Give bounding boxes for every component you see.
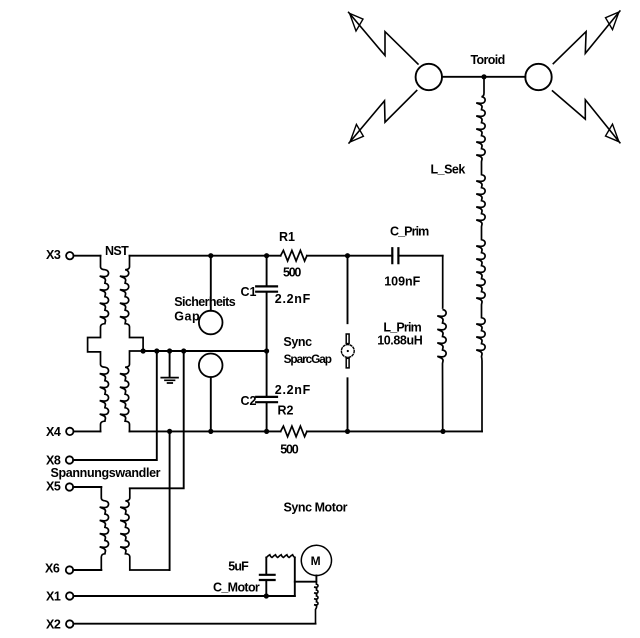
spark discharge bolt lower-right shaft [553, 91, 620, 143]
label Sicherheits [174, 295, 235, 309]
resistor R1 [281, 250, 307, 261]
label C1 [241, 285, 257, 299]
wire X6 lead [73, 569, 101, 571]
junction bottom rail / sync gap branch [345, 429, 350, 434]
wire sync gap lower lead [347, 378, 349, 431]
spark discharge bolt upper-right shaft [553, 11, 620, 64]
svg-text:2.2nF: 2.2nF [275, 383, 311, 397]
sync gap rotor [341, 345, 354, 358]
label X6 [45, 562, 60, 576]
wire X5 lead [73, 486, 101, 488]
label Gap [174, 309, 200, 323]
junction X1 wire / C_Motor [264, 593, 269, 598]
wire middle rail (centre tap to C1/C2) [143, 350, 267, 352]
wire middle rail to motor transformer [130, 351, 184, 488]
svg-text:NST: NST [105, 244, 129, 258]
transformer Spannungswandler primary winding (X5-X6) [100, 487, 109, 570]
junction middle rail / ground [167, 348, 172, 353]
svg-text:500: 500 [283, 265, 301, 279]
inductor motor auxiliary winding [266, 555, 295, 558]
capacitor C1 [256, 286, 277, 291]
wire C1 upper lead [266, 256, 268, 286]
spark discharge bolt upper-left shaft [349, 12, 418, 64]
wire C2 upper lead [266, 351, 268, 396]
svg-text:C2: C2 [241, 394, 257, 408]
wire C_Motor lower lead [265, 581, 267, 596]
label C2 value 2.2nF [275, 383, 311, 397]
label Sync Motor [284, 501, 348, 515]
transformer NST secondary winding (centre-tapped) [120, 256, 143, 432]
svg-text:X4: X4 [46, 425, 61, 439]
terminal X1 [66, 592, 73, 599]
wire X4 lead [74, 430, 101, 432]
label R2 value 500 [280, 443, 298, 457]
svg-text:109nF: 109nF [384, 274, 420, 288]
junction bottom rail / L_Prim [440, 429, 445, 434]
spark discharge bolt lower-right arrowhead [606, 124, 619, 142]
wire X8 to middle rail [73, 351, 157, 460]
svg-text:Sync: Sync [283, 335, 312, 349]
transformer Spannungswandler secondary winding [120, 488, 169, 570]
resistor R2 [281, 426, 307, 437]
label C_Prim [390, 224, 429, 238]
terminal X8 [66, 456, 73, 463]
wire Sicherheits gap lower lead [210, 377, 212, 431]
terminal X6 [66, 566, 73, 573]
svg-text:R2: R2 [278, 403, 294, 417]
inductor motor series winding [314, 582, 318, 624]
svg-text:5uF: 5uF [228, 560, 249, 574]
wire ground stub [169, 351, 171, 377]
label C_Prim value 109nF [384, 274, 420, 288]
wire toroid bar [442, 76, 525, 78]
svg-text:C_Prim: C_Prim [390, 224, 429, 238]
svg-text:X5: X5 [46, 479, 61, 493]
svg-text:R1: R1 [279, 230, 295, 244]
svg-text:C1: C1 [241, 285, 257, 299]
svg-text:2.2nF: 2.2nF [275, 292, 311, 306]
label X2 [46, 618, 61, 632]
wire Sicherheits gap upper lead [210, 256, 212, 311]
junction top rail / C1 [264, 253, 269, 258]
Sicherheits gap upper electrode [199, 311, 223, 335]
Sicherheits gap lower electrode [199, 354, 223, 378]
junction middle rail / C1 C2 [264, 348, 269, 353]
sync gap lower electrode [346, 358, 349, 368]
wire C1 lower lead [266, 293, 268, 351]
junction top rail / Sicherheits gap [208, 253, 213, 258]
spark discharge bolt upper-right arrowhead [606, 12, 619, 30]
wire C2 lower lead [266, 403, 268, 431]
svg-text:Toroid: Toroid [471, 53, 505, 67]
wire top rail (R1 to C_Prim) [307, 255, 392, 257]
capacitor C_Motor (5uF) [260, 575, 275, 580]
svg-text:SparcGap: SparcGap [284, 352, 332, 366]
svg-text:X2: X2 [46, 618, 61, 632]
label X4 [46, 425, 61, 439]
junction middle rail / centre tap [141, 348, 146, 353]
svg-text:Sync Motor: Sync Motor [284, 501, 348, 515]
junction middle rail / motor transformer [181, 348, 186, 353]
svg-text:Sicherheits: Sicherheits [174, 295, 235, 309]
label Sync [283, 335, 312, 349]
sync gap upper electrode [346, 334, 349, 344]
junction toroid / L_Sek [481, 74, 486, 79]
wire winding left / C_Motor lead [265, 558, 267, 574]
label SparcGap [284, 352, 332, 366]
label Spannungswandler [51, 466, 161, 480]
junction middle rail / X8 wire [154, 348, 159, 353]
spark discharge bolt lower-left arrowhead [350, 124, 363, 142]
toroid right sphere [525, 64, 551, 90]
terminal X3 [66, 252, 73, 259]
wire sync gap upper lead [347, 256, 349, 324]
svg-text:M: M [311, 554, 321, 568]
label X1 [46, 589, 61, 603]
label C2 [241, 394, 257, 408]
label L_Prim [383, 321, 421, 335]
svg-text:Spannungswandler: Spannungswandler [51, 466, 161, 480]
junction bottom rail / C2 [264, 429, 269, 434]
label 5uF [228, 560, 249, 574]
wire top rail (NST to R1) [130, 255, 281, 257]
wire top rail (C_Prim to L_Prim) [398, 255, 442, 257]
svg-text:Gap: Gap [174, 309, 200, 323]
svg-text:X1: X1 [46, 589, 61, 603]
inductor L_Sek (secondary winding) [476, 77, 485, 432]
wire X1 lead [73, 595, 294, 597]
transformer NST primary winding (X3-X4) [88, 256, 109, 432]
capacitor C_Prim [392, 248, 398, 263]
terminal X4 [66, 428, 73, 435]
label Toroid [471, 53, 505, 67]
label L_Sek [431, 163, 466, 177]
label L_Prim value 10.88uH [377, 334, 423, 348]
label R1 [279, 230, 295, 244]
motor M1 [301, 545, 331, 575]
label R2 [278, 403, 294, 417]
junction bottom rail / Sicherheits gap [208, 429, 213, 434]
capacitor C2 [256, 397, 277, 402]
wire bottom rail (NST to R2) [130, 430, 281, 432]
svg-text:500: 500 [280, 443, 298, 457]
ground [161, 378, 178, 383]
svg-text:C_Motor: C_Motor [213, 580, 260, 594]
wire X2 lead [73, 623, 315, 625]
wire X3 lead [74, 255, 101, 257]
spark discharge bolt upper-left arrowhead [350, 13, 363, 31]
label X5 [46, 479, 61, 493]
wire motor to node [295, 575, 317, 581]
wire bottom rail (R2 to L_Sek) [307, 430, 482, 432]
svg-text:X3: X3 [46, 248, 61, 262]
svg-text:X6: X6 [45, 562, 60, 576]
junction bottom rail / transformer feed [167, 429, 172, 434]
junction top rail / sync gap branch [345, 253, 350, 258]
terminal X5 [66, 483, 73, 490]
spark discharge bolt lower-left shaft [349, 91, 417, 144]
toroid left sphere [416, 64, 442, 90]
svg-text:L_Sek: L_Sek [431, 163, 466, 177]
label NST [105, 244, 129, 258]
label X8 [46, 453, 61, 467]
inductor L_Prim [437, 256, 446, 432]
label X3 [46, 248, 61, 262]
label R1 value 500 [283, 265, 301, 279]
label C_Motor [213, 580, 260, 594]
label C1 value 2.2nF [275, 292, 311, 306]
label M (motor) [311, 554, 321, 568]
svg-text:10.88uH: 10.88uH [377, 334, 423, 348]
terminal X2 [66, 620, 73, 627]
wire secondary return to bottom rail [169, 431, 171, 570]
wire winding right to X1 wire [294, 558, 296, 597]
